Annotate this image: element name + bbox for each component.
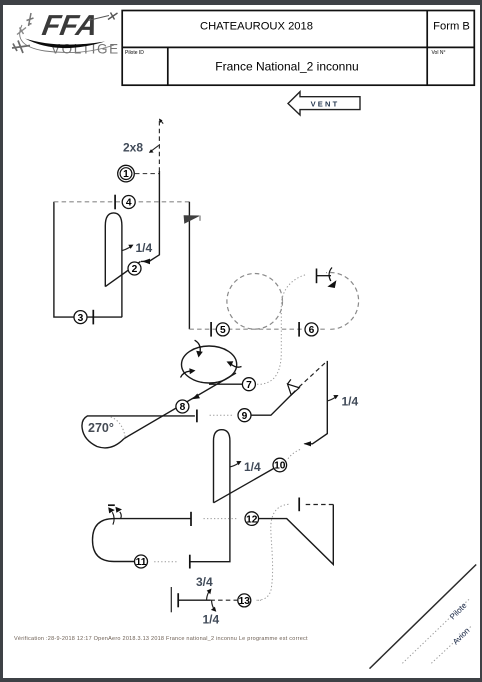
roll number circle 12: [245, 512, 259, 526]
figure 13 1/4 arrow down: [212, 600, 215, 609]
figure 13 3/4 arrow up: [207, 591, 211, 601]
figure 1 entry arrow: [160, 119, 164, 123]
roll number circle 13: [238, 594, 251, 607]
logo plane bottom-left: [12, 41, 30, 54]
figure 11 half loop: [93, 519, 192, 562]
logo line to plane: [88, 16, 109, 21]
svg-text:10: 10: [274, 461, 286, 472]
svg-text:3/4: 3/4: [196, 575, 213, 589]
figure 7 rotation arrow right: [232, 365, 242, 368]
roll number circle 7: [242, 378, 255, 391]
figure 10 exit tick: [189, 555, 191, 569]
figure 5 dashed base line: [189, 328, 327, 330]
svg-text:FFA: FFA: [40, 10, 100, 42]
svg-text:Vérification :28-9-2018 12:17: Vérification :28-9-2018 12:17 OpenAero 2…: [14, 636, 308, 642]
figure 13 entry tick: [177, 593, 179, 607]
figure 6 dashed loop arc: [326, 273, 359, 330]
logo plane right: [108, 13, 118, 20]
VENT arrow: [288, 92, 360, 115]
roll number circle 3: [74, 311, 87, 324]
figure 3 lines: [54, 202, 122, 317]
Avion dotted line: [431, 626, 471, 663]
roll number circle 6: [305, 323, 318, 336]
figure 13 solid line: [178, 599, 210, 601]
connector fig8-9 dotted: [210, 414, 233, 416]
figure 11 flick symbol: [108, 505, 122, 524]
svg-text:CHATEAUROUX 2018: CHATEAUROUX 2018: [200, 21, 313, 33]
figure 2 entry diagonal: [105, 261, 140, 286]
svg-text:France National_2 inconnu: France National_2 inconnu: [215, 60, 358, 74]
Pilote dotted line: [402, 599, 469, 664]
figure 3 exit tick: [92, 310, 94, 325]
figure 5 dashed loop: [227, 274, 283, 330]
figure 9 dashed 45 line: [299, 361, 327, 387]
svg-text:7: 7: [246, 380, 252, 391]
logo swoosh thin: [20, 25, 114, 53]
svg-text:1/4: 1/4: [342, 395, 359, 409]
svg-text:5: 5: [220, 325, 226, 336]
figure 12 dashed exit: [303, 504, 333, 506]
figure 6 entry tick: [298, 322, 300, 337]
figure 9 entry line: [251, 391, 296, 416]
figure 1 dashed entry line: [158, 121, 160, 171]
figure 6 roll symbol: [317, 268, 337, 289]
svg-text:Vol N°: Vol N°: [432, 50, 446, 56]
roll number circle 1 (double): [118, 165, 135, 182]
figure 5 entry tick: [210, 322, 212, 337]
figure 12 wedge: [259, 505, 334, 565]
figure 8 entry diagonal with arrow: [124, 373, 236, 439]
svg-text:VENT: VENT: [311, 100, 340, 109]
figure 8 teardrop: [82, 416, 195, 448]
roll number circle 4: [122, 196, 135, 209]
roll number circle 11: [135, 555, 148, 568]
figure 7 rotation arrow top: [195, 340, 201, 352]
svg-text:Pilote ID: Pilote ID: [125, 50, 144, 56]
figure 8 exit tick: [196, 410, 198, 423]
figure 2 P-loop shape: [105, 213, 122, 317]
figure 2 quarter roll arrow: [122, 247, 130, 251]
svg-text:VOLTIGE: VOLTIGE: [51, 42, 120, 57]
svg-text:6: 6: [309, 325, 315, 336]
roll number circle 8: [176, 400, 189, 413]
circle 1 connector dashed: [135, 173, 159, 175]
connector fig10-11 dotted: [153, 561, 177, 563]
svg-text:1/4: 1/4: [136, 241, 153, 255]
figure 10 entry diagonal: [214, 468, 274, 502]
svg-text:9: 9: [242, 411, 248, 422]
figure 7 rolling circle ellipse: [182, 346, 237, 383]
svg-text:1/4: 1/4: [244, 460, 261, 474]
figure 1 spin down line: [141, 171, 159, 261]
svg-text:270°: 270°: [88, 421, 114, 435]
figure 11 exit tick: [190, 512, 192, 526]
roll number circle 2: [128, 262, 141, 275]
figure 8 hidden arc dotted: [111, 417, 126, 437]
figure 7 exit line to circle: [209, 383, 242, 385]
svg-text:13: 13: [239, 596, 251, 607]
svg-text:1: 1: [123, 169, 129, 180]
flag marker: [184, 215, 201, 224]
svg-text:8: 8: [180, 402, 186, 413]
connector fig9-10 dotted: [287, 450, 300, 461]
svg-text:3: 3: [78, 313, 84, 324]
logo plane left: [17, 28, 26, 35]
figure 13 dashed line: [211, 599, 238, 601]
signature solid diagonal: [370, 565, 477, 669]
svg-text:Avion: Avion: [451, 626, 471, 646]
figure 9 quarter roll arrow: [328, 397, 336, 401]
svg-text:12: 12: [246, 514, 258, 525]
figure 10 P-loop shape: [190, 430, 230, 562]
header table: [122, 11, 474, 86]
svg-text:2x8: 2x8: [123, 141, 143, 155]
connector fig11-12 dotted: [204, 518, 239, 520]
logo FFA: [12, 10, 120, 56]
figure 1 exit arrowhead: [142, 259, 150, 265]
connector fig12-13 dotted C curve: [258, 504, 289, 600]
figure 7 rotation arrow bottom-left: [181, 371, 190, 377]
figure 10 quarter roll arrow: [230, 463, 238, 467]
svg-text:2: 2: [132, 264, 138, 275]
connector fig6-7 dotted curve: [256, 275, 305, 384]
svg-text:11: 11: [136, 557, 147, 568]
roll number circle 9: [238, 409, 251, 422]
svg-text:4: 4: [126, 198, 132, 209]
logo plane top: [27, 13, 34, 26]
roll number circle 10: [273, 458, 287, 472]
figure 12 exit tick: [298, 498, 300, 512]
figure 9 exit arrowhead: [304, 441, 312, 446]
figure 9 down line: [305, 361, 328, 444]
2x8 pointer arrow: [152, 145, 159, 151]
svg-text:Form B: Form B: [433, 21, 470, 33]
svg-text:Pilote: Pilote: [448, 601, 469, 622]
logo swoosh thick: [25, 39, 105, 49]
final bar: [170, 587, 172, 612]
figure 4 entry tick: [114, 195, 116, 210]
roll number circle 5: [216, 323, 229, 336]
figure 4 down line: [188, 202, 190, 329]
connector dotted right of circle 13: [257, 599, 262, 601]
figure 4 dashed inverted line: [54, 201, 190, 203]
svg-text:1/4: 1/4: [203, 613, 220, 627]
figure 9 flick triangle: [288, 379, 300, 395]
